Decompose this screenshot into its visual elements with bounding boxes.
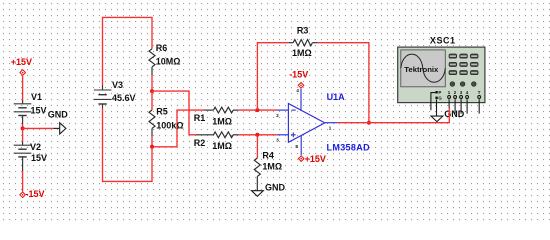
svg-text:R5: R5: [156, 106, 168, 116]
wire R2 to non-inverting node: [239, 134, 277, 136]
power node +15V (left): [11, 57, 32, 75]
wire +15V node to V1: [22, 76, 24, 101]
svg-text:GND: GND: [48, 110, 69, 120]
svg-text:100kΩ: 100kΩ: [156, 120, 183, 130]
svg-text:GND: GND: [444, 109, 465, 119]
svg-text:G: G: [438, 95, 442, 100]
wire R3 to output: [318, 43, 369, 123]
node junction inverting input: [255, 108, 259, 112]
svg-text:-15V: -15V: [289, 70, 308, 80]
resistor R1: [194, 107, 239, 126]
svg-text:R2: R2: [194, 138, 206, 148]
svg-text:V3: V3: [112, 80, 123, 90]
svg-text:P: P: [438, 90, 441, 95]
wire V2 to -15V node: [22, 171, 24, 191]
node junction V1/V2/GND: [21, 126, 25, 130]
battery V2: [14, 142, 47, 171]
svg-text:T: T: [478, 90, 481, 95]
ground GND on-page connector (left): [48, 110, 69, 134]
wire R4 from non-inverting node down: [256, 135, 258, 158]
svg-text:1MΩ: 1MΩ: [212, 116, 232, 126]
wire V3 bottom loop: [103, 108, 153, 181]
wire R6 to junction: [151, 75, 153, 91]
ground lead and symbol at oscilloscope: [431, 99, 465, 121]
resistor R6: [149, 43, 181, 75]
wire junction to V2: [22, 128, 24, 142]
svg-text:V2: V2: [30, 142, 41, 152]
svg-text:R1: R1: [194, 113, 206, 123]
svg-text:U1A: U1A: [327, 92, 346, 102]
ground symbol below R4: [252, 182, 286, 196]
wire V3 top loop to R6: [103, 17, 153, 85]
battery V3: [94, 80, 136, 108]
node junction below R5: [150, 145, 154, 149]
wire junction R5 to R1 row: [152, 110, 205, 147]
wire R5 to junction: [151, 137, 153, 147]
wire junction to R5: [151, 91, 153, 110]
svg-text:LM358AD: LM358AD: [327, 142, 371, 152]
wire junction to GND connector: [23, 127, 54, 129]
svg-text:-15V: -15V: [26, 189, 45, 199]
node junction output: [367, 121, 371, 125]
node junction below R6: [150, 89, 154, 93]
svg-text:1MΩ: 1MΩ: [292, 48, 312, 58]
svg-text:+15V: +15V: [305, 154, 326, 164]
oscilloscope pin stubs: [449, 99, 479, 113]
node junction non-inverting input: [255, 133, 259, 137]
svg-text:15V: 15V: [31, 153, 47, 163]
oscilloscope probe P lead: [431, 93, 436, 111]
svg-text:R4: R4: [262, 151, 274, 161]
wire junction R6 to R2 row: [152, 91, 196, 135]
wire R1 to inverting node: [239, 109, 277, 111]
resistor R2: [194, 132, 239, 151]
svg-text:1MΩ: 1MΩ: [212, 141, 232, 151]
wire feedback left vertical to R3: [257, 43, 289, 110]
svg-text:10MΩ: 10MΩ: [156, 56, 181, 66]
svg-text:XSC1: XSC1: [430, 35, 456, 45]
wire op-amp output to oscilloscope: [338, 108, 449, 123]
svg-text:45.6V: 45.6V: [112, 93, 136, 103]
resistor R4: [254, 151, 282, 191]
power node -15V (left): [20, 189, 45, 199]
wire V1 to junction: [22, 124, 24, 128]
resistor R5: [149, 106, 184, 136]
svg-text:+15V: +15V: [11, 57, 32, 67]
battery V1: [14, 92, 47, 124]
svg-text:V1: V1: [31, 92, 42, 102]
svg-text:1MΩ: 1MΩ: [262, 161, 282, 171]
power node +15V (op-amp V+): [298, 154, 325, 164]
svg-text:R3: R3: [297, 25, 309, 35]
power node -15V (op-amp V-): [289, 70, 308, 89]
oscilloscope XSC1: [398, 35, 485, 102]
resistor R3: [289, 25, 318, 58]
svg-text:R6: R6: [156, 43, 168, 53]
svg-text:GND: GND: [265, 182, 286, 192]
svg-text:Tektronix: Tektronix: [404, 65, 439, 74]
svg-text:15V: 15V: [31, 106, 47, 116]
op-amp U1A: [276, 88, 370, 155]
